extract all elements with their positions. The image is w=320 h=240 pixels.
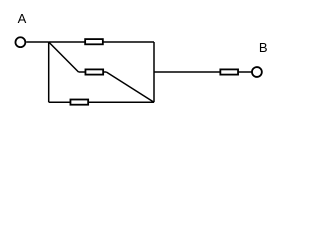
resistor R3 bottom bbox=[70, 100, 88, 105]
wire bottom-left segment bbox=[49, 101, 71, 103]
wire middle stub right bbox=[103, 71, 106, 73]
wire middle stub left bbox=[79, 71, 87, 73]
wire top-left segment bbox=[49, 41, 85, 43]
wire bottom-right segment bbox=[88, 101, 154, 103]
terminal B bbox=[252, 67, 262, 77]
wire output right segment bbox=[238, 71, 252, 73]
terminal A bbox=[15, 37, 25, 47]
resistor R4 output bbox=[220, 69, 238, 74]
resistor R2 middle bbox=[85, 69, 103, 74]
wire right vertical bbox=[153, 42, 155, 102]
wire A to junction bbox=[26, 41, 49, 43]
wire middle diagonal lower bbox=[106, 72, 154, 102]
wire middle diagonal upper bbox=[49, 42, 79, 72]
wire top-right segment bbox=[104, 41, 155, 43]
svg-text:B: B bbox=[259, 40, 268, 55]
svg-text:A: A bbox=[18, 11, 27, 26]
wire output left segment bbox=[154, 71, 221, 73]
wire left vertical bbox=[48, 42, 50, 102]
resistor R1 top bbox=[85, 39, 103, 44]
